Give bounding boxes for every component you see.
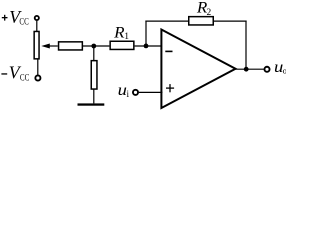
wiper arrow: [41, 44, 58, 49]
op-amp U1 triangle: [161, 30, 235, 109]
grounding resistor body: [91, 61, 97, 89]
svg-text:CC: CC: [20, 72, 29, 82]
resistor (wiper series) body: [59, 42, 83, 50]
svg-text:CC: CC: [19, 17, 28, 27]
label uo: [274, 59, 287, 76]
wire potentiometer bottom to -VCC: [37, 59, 39, 75]
label +VCC: [2, 7, 29, 27]
node A junction dot: [91, 44, 96, 49]
op-amp minus sign: [165, 51, 172, 53]
label ui: [118, 82, 130, 99]
wire node A down to grounding resistor: [93, 46, 95, 60]
terminal -VCC: [35, 75, 40, 80]
svg-text:2: 2: [207, 8, 212, 18]
terminal uo: [264, 67, 269, 72]
ground: [78, 103, 105, 105]
resistor R1 body: [110, 41, 134, 49]
potentiometer RP body: [34, 31, 39, 58]
node B junction dot: [144, 44, 149, 49]
wire resistor to node A: [83, 45, 109, 47]
svg-text:u: u: [118, 82, 127, 99]
svg-text:o: o: [283, 65, 286, 75]
terminal ui: [133, 90, 138, 95]
output junction dot: [244, 67, 249, 72]
wire feedback right vertical down to output node: [245, 21, 247, 70]
wire ui to op-amp non-inverting input: [139, 91, 163, 93]
label -VCC: [1, 63, 29, 83]
wire op-amp output to uo: [236, 68, 264, 70]
svg-text:R: R: [113, 24, 125, 41]
resistor R2 body: [189, 17, 214, 25]
svg-text:1: 1: [124, 31, 129, 42]
wire R1 to op-amp inverting input: [135, 45, 163, 47]
wire feedback top left to R2: [145, 20, 188, 22]
label R1: [113, 24, 129, 42]
wire +VCC to potentiometer top: [36, 21, 38, 31]
terminal +VCC: [35, 16, 39, 20]
svg-text:i: i: [127, 89, 130, 99]
wire R2 to right vertical: [214, 20, 247, 22]
wire grounding resistor to ground: [93, 90, 95, 104]
label R2: [196, 0, 212, 18]
op-amp plus sign: [166, 84, 174, 92]
wire feedback up from node B: [145, 21, 147, 46]
